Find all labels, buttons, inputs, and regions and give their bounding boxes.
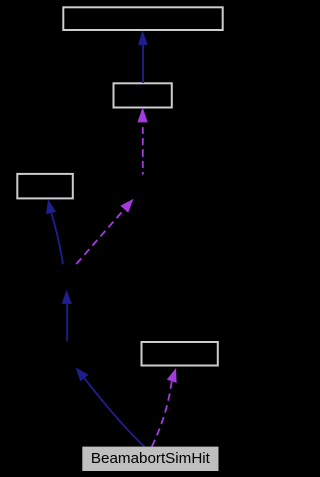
dashed usage arrow B dash 3	[142, 149, 144, 157]
class box right (TVector3)	[142, 342, 218, 366]
solid inheritance arrow E shaft (vertical, lower)	[66, 304, 68, 342]
dashed usage arrow G head	[167, 368, 177, 383]
dashed usage arrow B dash 5	[142, 172, 144, 175]
solid inheritance arrow C shaft (hidden node to box3)	[51, 213, 63, 264]
dashed usage arrow D shaft (hidden node to hidden node)	[76, 209, 124, 264]
dashed usage arrow B dash 2	[142, 138, 144, 145]
solid inheritance arrow F shaft (BeamabortSimHit up-left)	[84, 378, 144, 447]
class box second (RelationsInterface)	[114, 83, 172, 107]
dashed usage arrow B dash 4	[142, 161, 144, 168]
solid inheritance arrow E head	[62, 290, 72, 304]
dashed usage arrow G shaft (BeamabortSimHit up-right to box4)	[152, 381, 172, 446]
dashed usage arrow D head	[120, 199, 133, 213]
class box left (DataStore)	[17, 174, 73, 199]
solid inheritance arrow C head	[46, 199, 56, 214]
svg-text:BeamabortSimHit: BeamabortSimHit	[91, 450, 211, 467]
solid inheritance arrow A shaft (box2 to box1)	[142, 45, 144, 84]
dashed usage arrow B head (into box2)	[137, 107, 147, 122]
class box top (TObject)	[63, 7, 222, 30]
dashed usage arrow B dash 1	[142, 127, 144, 134]
solid inheritance arrow A head	[138, 30, 148, 45]
main node box BeamabortSimHit	[82, 447, 218, 471]
solid inheritance arrow F head	[76, 367, 89, 381]
